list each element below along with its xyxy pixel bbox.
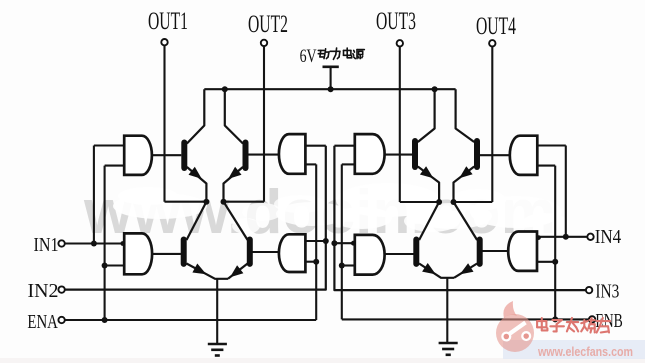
wire gate A1 input1 stub: [94, 144, 124, 146]
terminal IN4: [587, 234, 593, 240]
transistor Q2 base bar: [243, 140, 249, 172]
watermark white blobs: [113, 193, 207, 219]
svg-text:IN2: IN2: [28, 280, 59, 302]
wire gate A4 input2 stub: [305, 261, 316, 263]
junction dot ENA to gate A2: [102, 263, 108, 269]
wire to ground right: [446, 278, 448, 343]
transistor Q8 collector: [454, 202, 478, 240]
transistor Q1 emitter: [187, 167, 207, 202]
wire IN1 up to gate A1: [93, 146, 95, 244]
wire OUT4 to node: [454, 201, 493, 203]
wire OUT2 vertical: [263, 46, 265, 201]
wire OUT3 to node: [400, 201, 439, 203]
wire IN4: [537, 236, 587, 238]
svg-text:OUT4: OUT4: [476, 13, 516, 40]
junction dot IN2 to gate A4: [323, 238, 329, 244]
bottom page tint band: [0, 358, 645, 363]
terminal OUT2: [261, 40, 267, 46]
terminal IN3: [586, 287, 592, 293]
wire gate A6 output: [385, 253, 414, 255]
node OUT3 junction dot: [436, 199, 442, 205]
transistor Q4 emitter: [228, 264, 248, 279]
wire gate A4 output: [252, 251, 279, 253]
watermark band bottom right: [503, 340, 645, 359]
wire ENB: [342, 318, 589, 320]
wire gate A8 input2 stub: [537, 261, 555, 263]
wire gate A2 output: [152, 253, 181, 255]
svg-text:IN1: IN1: [34, 234, 59, 256]
wire IN1: [65, 242, 124, 244]
wire gate A7 input2 stub: [537, 165, 555, 167]
terminal ENB: [589, 316, 595, 322]
transistor Q6 emitter: [454, 167, 475, 203]
transistor Q2 collector: [225, 89, 243, 143]
wire IN2: [65, 146, 326, 290]
svg-text:www.elecfans.com: www.elecfans.com: [537, 344, 633, 359]
terminal IN1: [58, 240, 64, 246]
svg-text:OUT1: OUT1: [148, 8, 188, 35]
wire gate A8 output: [482, 250, 508, 252]
junction dot ENB to gate A6: [339, 263, 345, 269]
watermark elecfans logo icon: [509, 323, 526, 335]
transistor Q8 base bar: [477, 237, 483, 267]
transistor Q6 base bar: [474, 138, 480, 170]
watermark elecfans logo circle: [496, 314, 534, 352]
AND gate A8: [508, 232, 537, 271]
wire gate A6 input2 stub: [342, 264, 355, 266]
junction dot gate A6 input1: [351, 241, 356, 246]
wire gate A7 output: [480, 154, 510, 156]
junction dot ENA branch: [102, 317, 108, 323]
svg-text:6V: 6V: [300, 46, 317, 67]
terminal ENA: [58, 317, 64, 323]
wire IN4 up to gate A7: [565, 146, 567, 237]
transistor Q5 collector: [418, 89, 435, 142]
AND gate A3: [279, 134, 305, 174]
wire ENA: [65, 319, 316, 321]
transistor Q7 base bar: [413, 237, 419, 267]
ground symbol right: [439, 342, 458, 345]
AND gate A7: [510, 136, 537, 175]
transistor Q8 emitter: [454, 264, 477, 278]
wire gate A1 input2 stub: [105, 165, 125, 167]
power rail 6V: [204, 88, 455, 90]
transistor Q5 emitter: [418, 167, 439, 203]
wire OUT1 to node: [165, 201, 207, 203]
transistor Q1 base bar: [181, 140, 187, 172]
transistor Q3 emitter: [187, 264, 229, 279]
junction dot gate A2 input1: [120, 241, 125, 246]
transistor Q6 collector: [456, 89, 475, 142]
wire to ground left: [216, 279, 218, 344]
watermark text dianzifashaoyou: [537, 320, 546, 322]
wire OUT3 vertical: [399, 47, 401, 202]
junction dot IN3 to gate A6: [331, 240, 337, 246]
wire OUT1 vertical: [163, 46, 165, 202]
transistor Q1 collector: [187, 89, 204, 143]
junction dot IN1 branch: [91, 241, 97, 247]
wire gate A5 input1 stub: [334, 145, 354, 147]
junction dot ENB to gate A8: [552, 259, 558, 265]
wire gate A1 output: [152, 154, 181, 156]
wire OUT2 to node: [224, 201, 265, 203]
junction dot ENB branch: [552, 316, 558, 322]
node OUT1 junction dot: [203, 199, 209, 205]
node OUT2 junction dot: [221, 199, 227, 205]
svg-text:IN3: IN3: [595, 281, 619, 303]
node OUT4 junction dot: [451, 199, 457, 205]
wire gate A3 input1 stub: [305, 145, 325, 147]
junction dot rail center: [328, 86, 334, 92]
junction dot IN4 branch: [563, 234, 569, 240]
AND gate A6: [355, 235, 385, 275]
wire gate A6 input1 stub: [334, 242, 354, 244]
transistor Q7 emitter: [419, 264, 454, 278]
AND gate A2: [124, 233, 152, 274]
wire ENA vertical center: [315, 164, 317, 320]
svg-text:OUT3: OUT3: [376, 8, 416, 35]
wire ENB up to gate A7: [554, 166, 556, 320]
wire gate A3 output: [247, 154, 279, 156]
ground symbol left: [208, 343, 227, 346]
wire ENA up to gate A1: [104, 166, 106, 320]
transistor Q4 base bar: [247, 237, 253, 267]
wire OUT4 vertical: [491, 47, 493, 202]
svg-text:ENA: ENA: [27, 311, 58, 333]
transistor Q5 base bar: [412, 138, 418, 170]
terminal OUT4: [489, 40, 495, 46]
junction dot gate A8 input1: [536, 235, 541, 240]
AND gate A5: [355, 134, 385, 174]
AND gate A4: [279, 234, 306, 272]
AND gate A1: [124, 136, 152, 175]
junction dot rail left: [222, 86, 228, 92]
transistor Q7 collector: [419, 202, 439, 240]
terminal OUT3: [397, 40, 403, 46]
wire IN3: [334, 146, 586, 290]
svg-text:IN4: IN4: [595, 226, 622, 248]
wire gate A5 output: [385, 154, 413, 156]
transistor Q3 base bar: [181, 237, 187, 267]
junction dot rail right: [432, 86, 438, 92]
power supply terminal 6V: [330, 67, 332, 89]
wire gate A2 input2 stub: [105, 264, 125, 266]
wire gate A3 input2 stub: [305, 163, 316, 165]
terminal OUT1: [161, 39, 167, 45]
terminal IN2: [58, 286, 64, 292]
wire ENB vertical center: [341, 164, 343, 319]
junction dot ENA to gate A4: [313, 259, 319, 265]
wire gate A4 input1 stub: [305, 240, 325, 242]
transistor Q3 collector: [187, 202, 207, 240]
wire gate A7 input1 stub: [537, 144, 566, 146]
transistor Q2 emitter: [224, 167, 243, 202]
wire gate A5 input2 stub: [342, 163, 355, 165]
transistor Q4 collector: [224, 202, 248, 240]
svg-text:OUT2: OUT2: [248, 11, 288, 38]
